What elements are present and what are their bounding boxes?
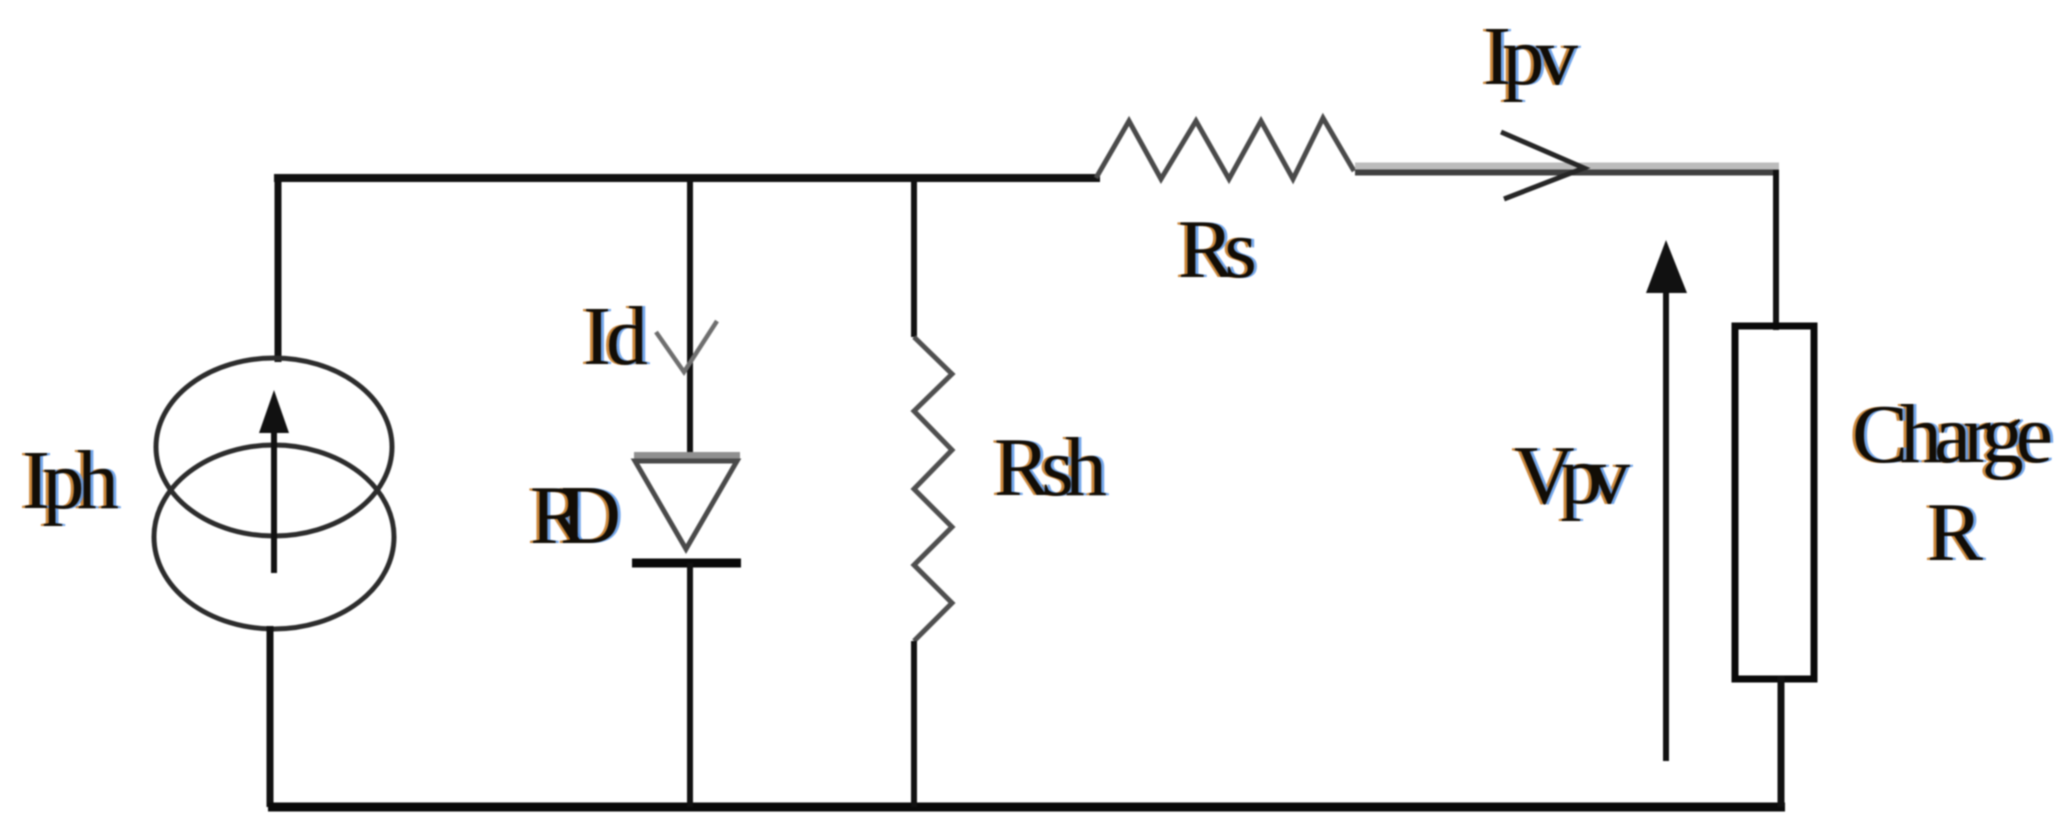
label Id — [580, 290, 651, 383]
wire: right vertical (to load) — [1773, 170, 1779, 330]
current source Iph (two overlapping circles) — [154, 358, 394, 629]
current source arrow (up) — [259, 390, 289, 573]
svg-text:RD: RD — [530, 469, 621, 562]
wire: thick gray output wire (light band) — [1355, 163, 1779, 170]
svg-text:Rs: Rs — [1178, 203, 1257, 296]
load resistor rectangle (Charge R) — [1735, 326, 1814, 679]
wire: diode branch upper — [687, 174, 693, 456]
Vpv arrow (up) — [1646, 240, 1687, 761]
wire: diode branch lower — [687, 563, 693, 807]
wire: Rsh branch upper — [911, 174, 917, 337]
wire: current source to bottom bus — [267, 626, 274, 807]
label RD — [527, 469, 624, 562]
svg-text:Vpv: Vpv — [1514, 429, 1630, 522]
label Rsh — [991, 421, 1110, 514]
label Iph — [19, 434, 122, 527]
svg-text:Charge: Charge — [1852, 388, 2053, 481]
svg-text:Rsh: Rsh — [994, 421, 1107, 514]
Id arrow (open V arrowhead) — [656, 321, 717, 372]
label Vpv — [1511, 429, 1633, 522]
svg-text:Ipv: Ipv — [1483, 10, 1578, 103]
resistor Rs (horizontal zigzag) — [1096, 118, 1354, 179]
label Charge — [1849, 388, 2056, 481]
svg-text:Iph: Iph — [22, 434, 119, 527]
wire: load to bottom bus — [1778, 676, 1785, 807]
diode RD — [632, 456, 741, 563]
wire: bottom bus — [268, 803, 1785, 812]
wire: Rsh branch lower — [911, 641, 917, 807]
Ipv arrow (open arrowhead on output wire) — [1501, 132, 1584, 199]
label Rs — [1175, 203, 1260, 296]
wire: top bus (left node to Rs) — [274, 174, 1100, 182]
label Ipv — [1480, 10, 1581, 103]
wire: left vertical (top bus down to current source) — [275, 174, 282, 362]
svg-text:Id: Id — [583, 290, 648, 383]
label R (load) — [1924, 486, 1986, 579]
resistor Rsh (vertical zigzag) — [914, 337, 952, 641]
svg-text:R: R — [1927, 486, 1983, 579]
wire: thick gray output wire (dark band) — [1355, 170, 1779, 176]
